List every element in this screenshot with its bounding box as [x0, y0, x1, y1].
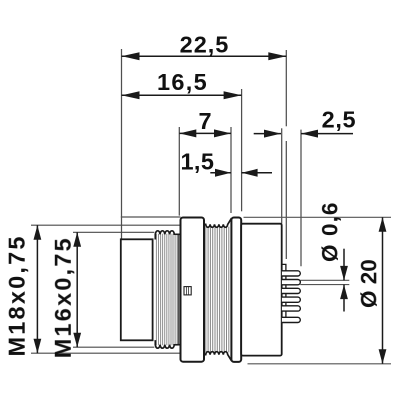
leader lines pin diameter 0.6 — [300, 279, 349, 281]
pin 1 — [282, 271, 300, 276]
extension line diameter 20 top (y=217) — [121, 216, 181, 218]
pin 2 — [282, 280, 300, 285]
dimension 22,5 — [122, 32, 287, 61]
extension line 7 left (x=179.3) — [178, 127, 180, 216]
svg-text:Ø 0,6: Ø 0,6 — [317, 201, 342, 262]
thread M18 bottom profile — [155, 340, 180, 348]
svg-text:1,5: 1,5 — [180, 149, 214, 175]
extension line M18 bottom (y=353.2) — [31, 352, 181, 354]
extension line left (x=121.5) — [121, 49, 123, 239]
dimension diameter 20 — [356, 217, 386, 363]
extension line diameter 20 bottom (y=363.8) — [248, 363, 392, 365]
dimension M16x0,75 — [50, 232, 81, 358]
extension line M16 top (y=232.3) — [73, 231, 154, 233]
knurl band hatch — [206, 227, 229, 353]
dimension diameter 0,6 — [317, 201, 348, 311]
knurled nut rear flange — [231, 218, 241, 362]
svg-text:2,5: 2,5 — [322, 107, 356, 133]
dimension 1,5 — [180, 149, 272, 177]
knurl band bottom profile — [204, 352, 232, 361]
svg-text:16,5: 16,5 — [157, 69, 208, 95]
extension line M16 bottom (y=347.2) — [73, 346, 154, 348]
thread M18 top profile — [155, 231, 180, 240]
front socket cylinder — [121, 239, 153, 340]
insulator boss steps — [282, 264, 286, 317]
dimension 2,5 (pin protrusion) — [254, 107, 356, 138]
extension line pin tip (x=301) — [300, 130, 302, 267]
svg-text:7: 7 — [198, 108, 211, 134]
dimension M18x0,75 — [4, 225, 42, 356]
dimension 16,5 — [122, 69, 242, 99]
svg-text:22,5: 22,5 — [180, 32, 230, 58]
rear body — [241, 224, 282, 356]
thread M18 hatch — [156, 234, 177, 345]
extension line M18 top (y=225.2) — [31, 224, 181, 226]
pin 4 — [282, 297, 300, 302]
dimension 7 — [179, 108, 231, 137]
extension line 16.5 right (x=241.6) — [241, 89, 243, 211]
extension line pin root (x=281.7) — [281, 128, 283, 223]
svg-text:M16x0,75: M16x0,75 — [50, 236, 76, 358]
pin 6 — [282, 317, 300, 322]
knurled nut front flange — [181, 218, 205, 362]
svg-text:M18x0,75: M18x0,75 — [4, 234, 30, 356]
extension line 22.5 right (x=286.3) — [285, 50, 287, 126]
knurl band top profile — [204, 218, 232, 227]
extension line 7 right / 1.5 left (x=231) — [230, 127, 232, 213]
svg-text:Ø 20: Ø 20 — [356, 259, 381, 308]
anti-rotation tab — [184, 287, 191, 295]
pin 5 — [282, 306, 300, 311]
pin 3 — [282, 288, 300, 293]
